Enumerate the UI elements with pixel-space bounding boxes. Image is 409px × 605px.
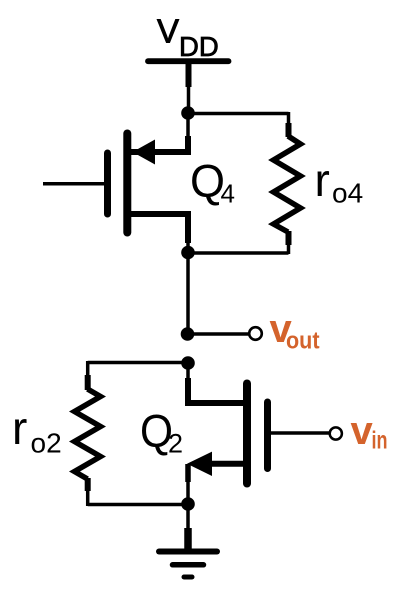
- transistor Q4 (PMOS) gate wire: [43, 182, 104, 186]
- wire VDD stub: [186, 62, 192, 110]
- svg-text:2: 2: [168, 429, 183, 459]
- transistor Q2 drain lead (top): [188, 378, 244, 403]
- wire vout node to terminal: [188, 332, 249, 336]
- label VDD: [157, 13, 219, 63]
- transistor Q2 gate wire: [270, 431, 329, 435]
- label ro2: [12, 402, 62, 459]
- svg-text:in: in: [372, 427, 388, 455]
- svg-text:v: v: [351, 409, 374, 453]
- svg-text:r: r: [315, 154, 330, 206]
- svg-text:V: V: [157, 13, 179, 50]
- transistor Q2 channel bar: [243, 384, 251, 484]
- node junction dot (VDD node): [181, 106, 195, 120]
- transistor Q2 arrow: [187, 452, 212, 476]
- transistor Q4 channel bar: [123, 134, 131, 233]
- svg-text:r: r: [12, 402, 27, 454]
- svg-text:o2: o2: [31, 428, 62, 459]
- terminal vin open circle: [330, 427, 342, 439]
- power supply VDD bar: [148, 58, 229, 64]
- resistor ro4: [274, 112, 301, 254]
- ground: [159, 504, 217, 577]
- wire node to ro4 top: [188, 112, 289, 116]
- node junction dot (vout node): [181, 327, 195, 341]
- wire Q4 bottom to node: [186, 241, 190, 253]
- wire vout node down to Q2: [186, 363, 190, 381]
- wire node to Q4 top: [186, 113, 190, 140]
- transistor Q4 source lead (bottom): [131, 214, 188, 243]
- svg-text:o4: o4: [332, 178, 363, 209]
- wire ro4 bottom to node: [188, 251, 289, 255]
- svg-text:out: out: [286, 328, 320, 355]
- label Q4: [190, 155, 235, 209]
- transistor Q4 arrow: [133, 140, 156, 165]
- wire node to vout node: [186, 253, 190, 335]
- transistor Q4 drain lead (top): [131, 136, 188, 152]
- label Q2: [140, 405, 183, 459]
- resistor ro2: [75, 361, 101, 506]
- label vin: [351, 409, 388, 455]
- node junction dot (ro2 top / Q2 drain node): [181, 356, 195, 370]
- transistor Q2 source lead (bottom): [211, 461, 244, 467]
- wire ro2 bottom to ground node: [88, 503, 188, 507]
- svg-text:4: 4: [221, 179, 235, 209]
- label vout: [270, 307, 320, 355]
- wire Q2 source to ground node: [185, 464, 191, 482]
- label ro4: [315, 154, 364, 209]
- wire node to ro2 top: [88, 361, 188, 365]
- svg-text:DD: DD: [179, 31, 219, 62]
- transistor Q4 gate bar: [104, 153, 111, 214]
- node junction dot (ground node): [181, 497, 195, 511]
- node junction dot (Q4 drain / ro4 bottom): [181, 246, 195, 260]
- transistor Q2 gate bar: [264, 402, 271, 469]
- terminal vout open circle: [249, 327, 262, 340]
